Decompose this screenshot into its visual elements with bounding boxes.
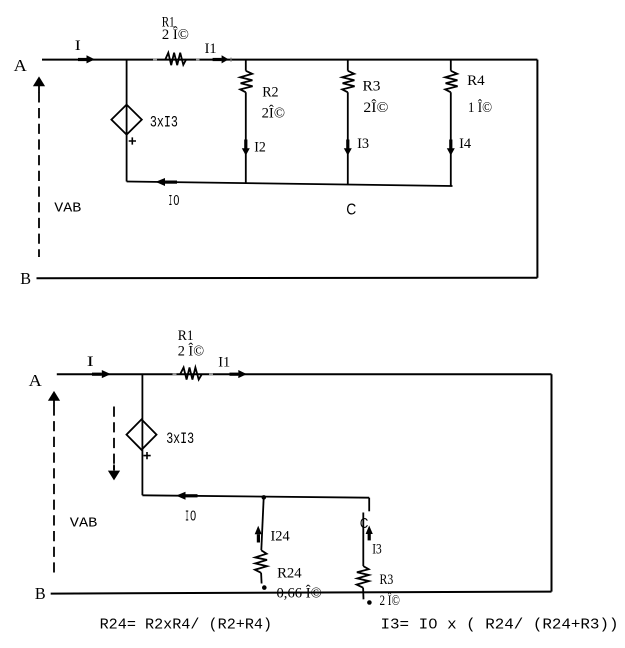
svg-text:I: I [185, 509, 189, 526]
svg-text:R3: R3 [363, 79, 381, 95]
current arrow I2 [244, 140, 247, 149]
svg-text:I: I [169, 193, 173, 210]
wire bottom I0 slanted [127, 182, 453, 187]
resistor R1 [165, 53, 186, 65]
svg-text:VAB: VAB [70, 515, 98, 531]
gray wire marks [173, 373, 214, 375]
svg-text:R24: R24 [277, 565, 302, 581]
current arrow I [92, 373, 102, 376]
svg-text:2Î©: 2Î© [363, 99, 388, 116]
wire branch R3 [347, 60, 349, 185]
junction dot at R24 bottom [262, 585, 267, 590]
current arrow I4 [449, 140, 452, 149]
dashed current arrow near source [113, 407, 115, 471]
plus sign of source [129, 137, 136, 144]
wire corner down from I0 to node C [368, 498, 370, 512]
voltage arrow VAB dashed [53, 405, 55, 572]
resistor R3 [342, 71, 354, 93]
svg-text:VAB: VAB [54, 201, 81, 217]
svg-text:R4: R4 [467, 73, 485, 89]
plus sign of source [143, 452, 150, 459]
wire branch to dependent source [126, 60, 128, 182]
resistor R4 [445, 71, 457, 93]
wire right side [551, 374, 553, 591]
wire R24 to bottom dot [260, 573, 263, 584]
wire bottom B [37, 277, 538, 280]
svg-text:I24: I24 [271, 528, 291, 544]
svg-text:A: A [14, 56, 28, 75]
current arrow I0 [165, 181, 177, 184]
current arrow I24 up [257, 534, 260, 542]
svg-text:3xI3: 3xI3 [166, 430, 194, 448]
svg-text:C: C [346, 202, 356, 219]
wire top A to right corner [42, 59, 537, 61]
svg-text:I4: I4 [459, 136, 471, 152]
gray wire marks [153, 59, 200, 61]
current arrow I [78, 58, 87, 61]
wire bottom B [51, 592, 552, 594]
junction dot at R24 top [262, 495, 267, 500]
svg-text:R2: R2 [262, 85, 278, 101]
wire top A to right corner [57, 373, 552, 375]
current arrow I3 up [368, 534, 371, 541]
svg-text:I3: I3 [357, 136, 369, 152]
resistor R24 [255, 550, 267, 573]
svg-text:2 Î©: 2 Î© [380, 592, 400, 609]
svg-text:R3: R3 [380, 572, 394, 588]
resistor R2 [240, 71, 252, 93]
svg-text:0: 0 [190, 509, 196, 525]
current arrow I0 [186, 494, 198, 497]
svg-text:2Î©: 2Î© [262, 104, 285, 121]
wire I0 horizontal [142, 495, 369, 497]
svg-text:R24= R2xR4/ (R2+R4): R24= R2xR4/ (R2+R4) [100, 617, 273, 634]
svg-text:I: I [75, 38, 81, 54]
svg-text:I1: I1 [205, 41, 217, 57]
svg-text:R1: R1 [178, 328, 194, 344]
svg-text:I3= I0 x ( R24/ (R24+R3)): I3= I0 x ( R24/ (R24+R3)) [381, 617, 619, 634]
svg-text:B: B [35, 584, 46, 603]
dependent source U2 diamond [127, 419, 157, 449]
wire R3 to bottom dot [362, 588, 364, 600]
dependent source U1 diamond [111, 105, 141, 135]
svg-text:I1: I1 [218, 354, 230, 370]
wire branch R4 [450, 60, 452, 186]
svg-text:1 Î©: 1 Î© [468, 99, 492, 116]
resistor R1 [180, 368, 202, 380]
voltage arrow VAB dashed [38, 92, 40, 257]
svg-text:I3: I3 [372, 541, 382, 557]
current arrow I1 [230, 373, 239, 376]
svg-text:I: I [87, 354, 94, 370]
svg-text:3xI3: 3xI3 [150, 114, 178, 132]
svg-text:B: B [20, 269, 31, 288]
svg-text:2 Î©: 2 Î© [162, 26, 189, 43]
wire right side [536, 60, 538, 278]
wire branch to dependent source [141, 374, 143, 495]
svg-text:A: A [29, 371, 43, 390]
svg-text:2 Î©: 2 Î© [178, 342, 204, 359]
wire R24 branch upper [261, 498, 263, 551]
wire branch R2 [245, 60, 247, 184]
svg-text:0: 0 [173, 193, 179, 209]
current arrow I3 [346, 140, 349, 149]
junction dot at R3 bottom [367, 600, 372, 605]
current arrow I1 [213, 58, 222, 61]
wire R3 branch [362, 513, 364, 567]
resistor R3 [357, 566, 369, 588]
svg-text:I2: I2 [254, 140, 266, 156]
